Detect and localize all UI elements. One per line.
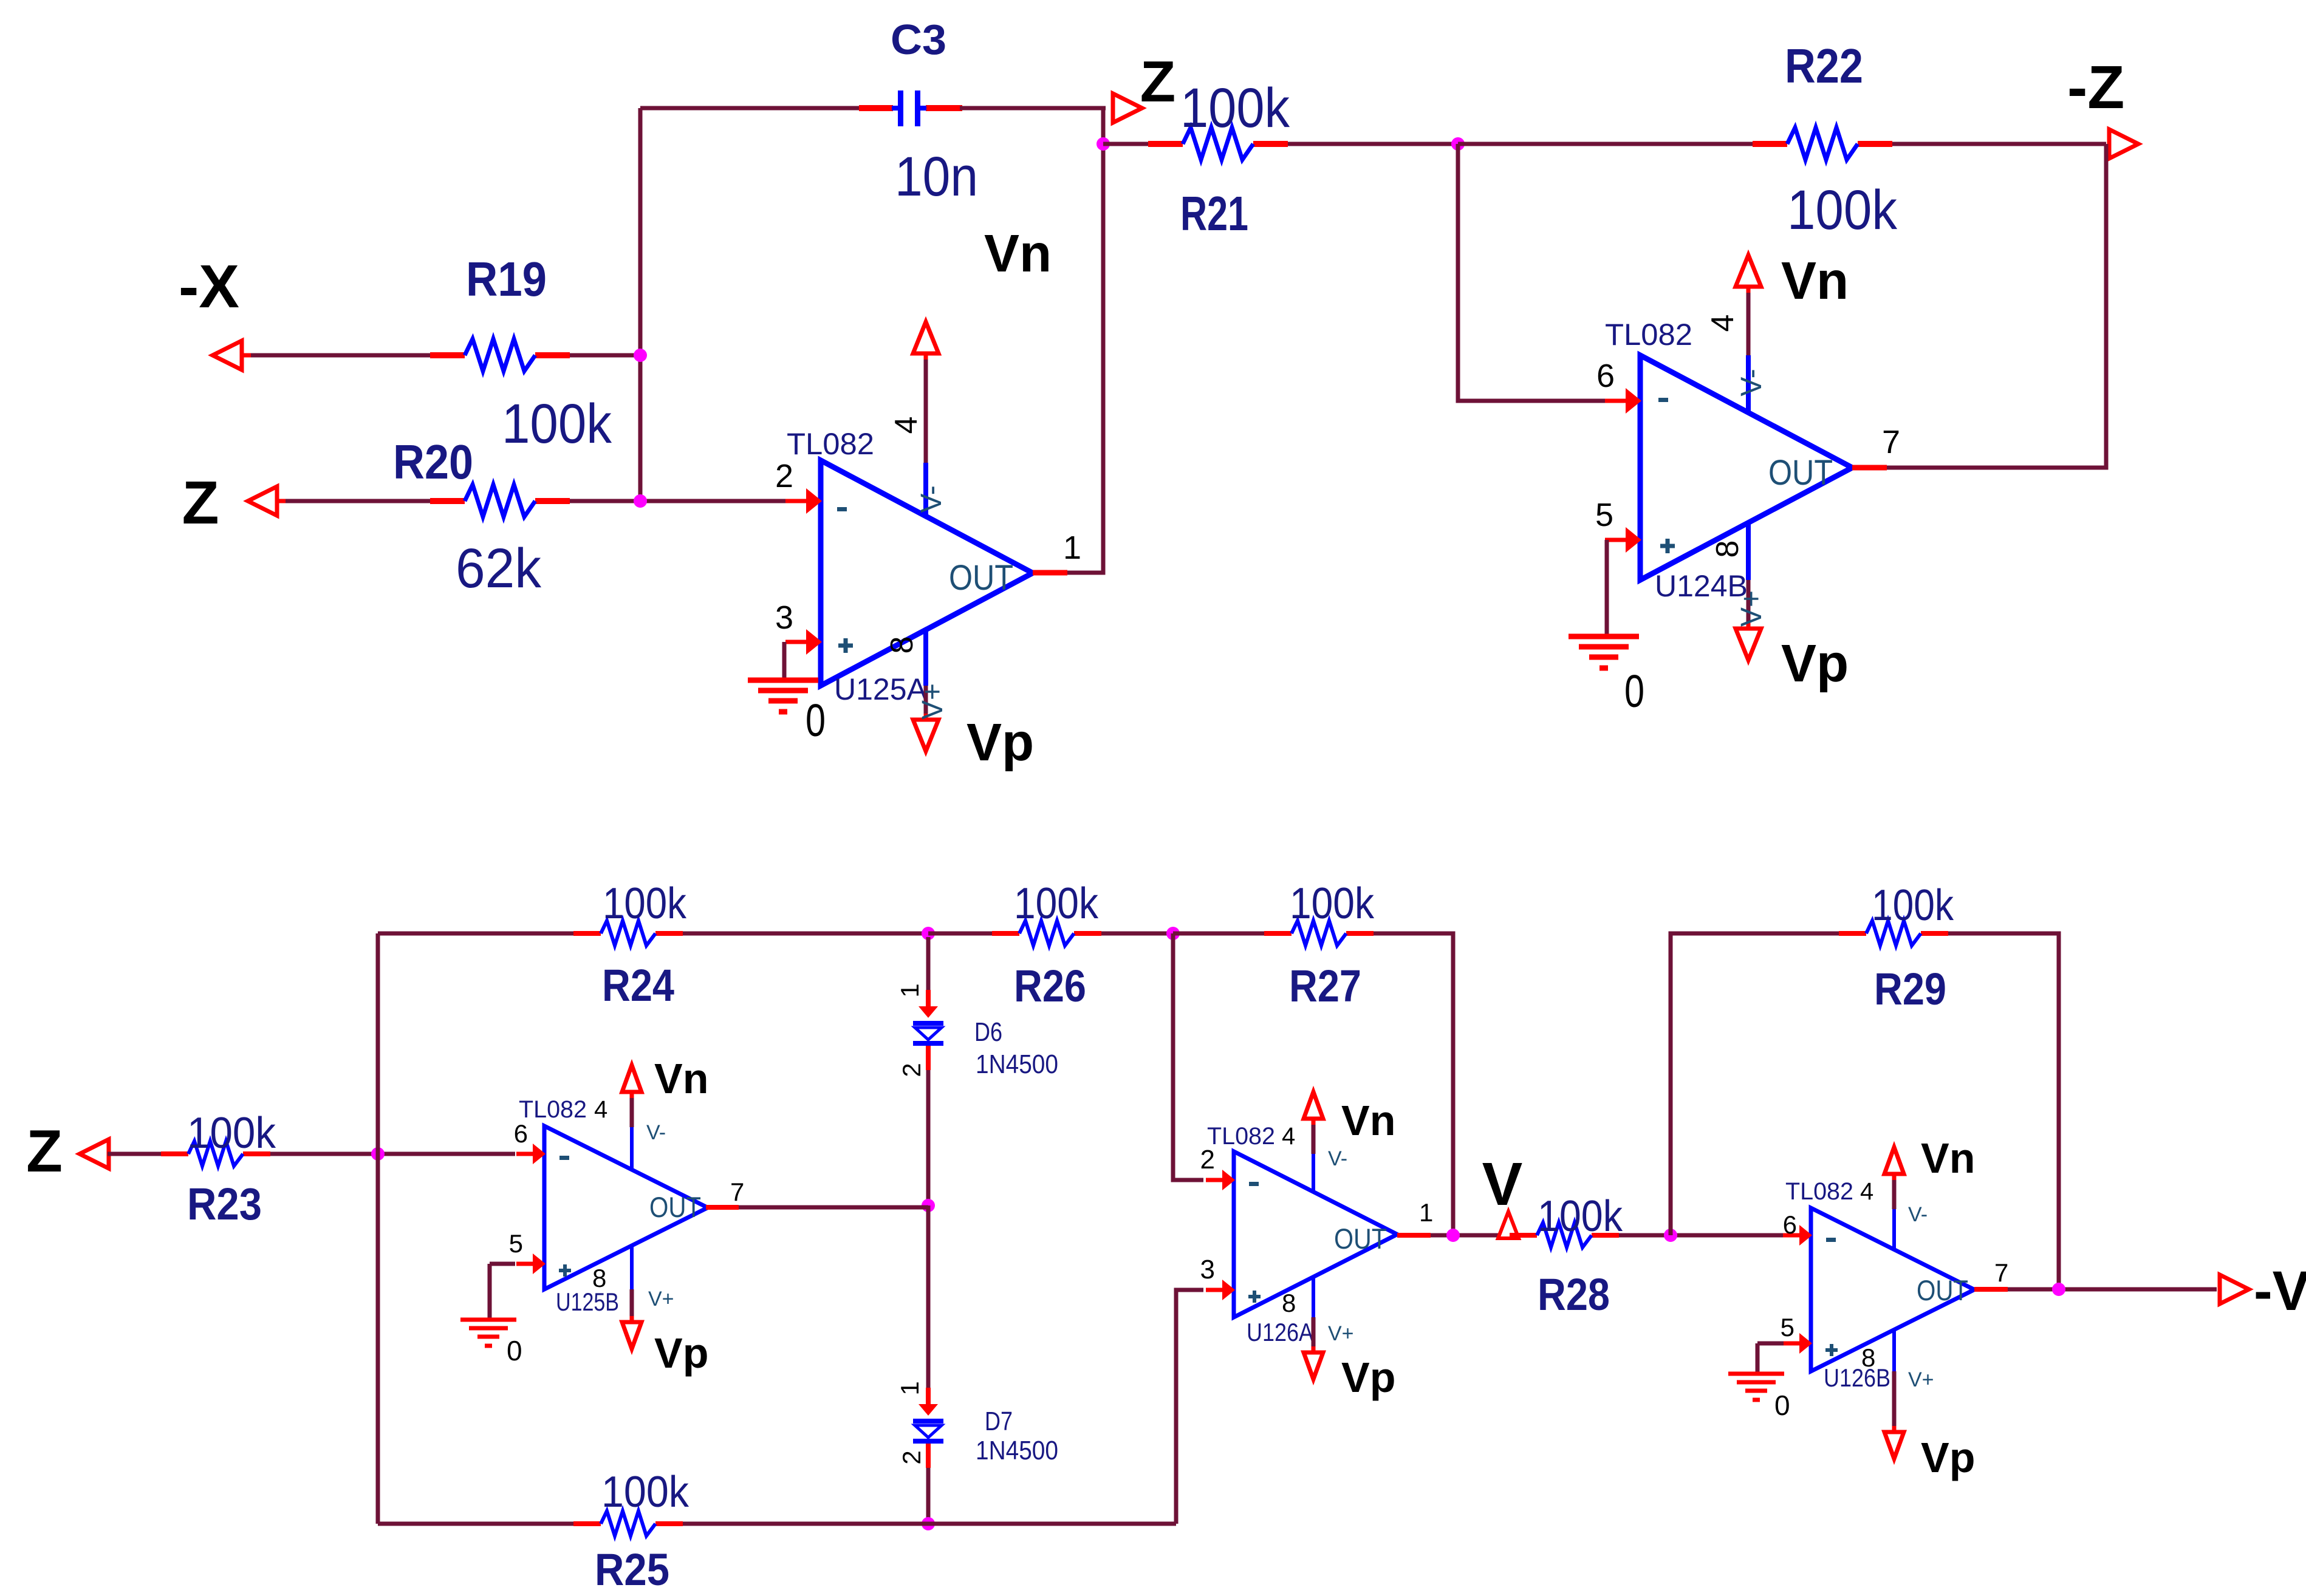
label R29 bbox=[1874, 964, 1946, 1014]
power arrow Vn (U124B) bbox=[1736, 255, 1761, 293]
pin OUT stub U125A bbox=[1033, 570, 1067, 576]
junction D7/R25 line bbox=[922, 1517, 935, 1530]
plus sign U125A bbox=[838, 638, 853, 653]
pin arrow 5 of U126B bbox=[1783, 1333, 1812, 1354]
label Vp (U125B) bbox=[654, 1329, 708, 1377]
power arrow Vn (U126B) bbox=[1884, 1147, 1904, 1180]
label R21 bbox=[1180, 186, 1248, 240]
svg-text:8: 8 bbox=[592, 1264, 606, 1292]
svg-text:D6: D6 bbox=[974, 1017, 1002, 1047]
svg-text:OUT: OUT bbox=[1334, 1223, 1387, 1255]
svg-text:V+: V+ bbox=[1736, 590, 1768, 627]
power arrow Vp (U124B) bbox=[1736, 622, 1761, 660]
op-amp U126B triangle bbox=[1811, 1208, 1974, 1371]
svg-text:2: 2 bbox=[897, 1450, 926, 1464]
pin 4 line V- of U125A bbox=[923, 353, 928, 517]
svg-text:Vn: Vn bbox=[1341, 1097, 1395, 1144]
label TL082 (U126B) bbox=[1785, 1178, 1853, 1205]
label U126A bbox=[1247, 1318, 1313, 1346]
svg-text:8: 8 bbox=[1710, 541, 1745, 558]
pin number 5 (U126B) bbox=[1781, 1313, 1795, 1342]
svg-text:OUT: OUT bbox=[1768, 453, 1833, 493]
wire pin5 to ground (U126B) bbox=[1757, 1343, 1784, 1374]
wire left vertical to R24 bbox=[378, 932, 573, 936]
svg-text:R28: R28 bbox=[1538, 1269, 1610, 1320]
pin arrow 5 of U125B bbox=[516, 1253, 546, 1274]
ground at U126B pin 5 bbox=[1728, 1374, 1784, 1400]
svg-text:Vn: Vn bbox=[1921, 1134, 1975, 1182]
wire U126A output to R28 bbox=[1431, 1233, 1511, 1238]
label R27 bbox=[1289, 961, 1361, 1011]
svg-text:100k: 100k bbox=[601, 1468, 689, 1516]
label Vn (U125A) bbox=[984, 224, 1052, 283]
resistor R27 bbox=[1264, 921, 1374, 946]
svg-text:1: 1 bbox=[1063, 530, 1081, 566]
wire R21 to U124B node bbox=[1288, 142, 1458, 146]
value 100k of R21 bbox=[1180, 77, 1290, 139]
svg-text:6: 6 bbox=[514, 1119, 528, 1148]
svg-text:Vp: Vp bbox=[1341, 1354, 1395, 1401]
svg-text:7: 7 bbox=[1882, 424, 1900, 460]
pin number 5 (U125B) bbox=[509, 1229, 523, 1258]
value 100k of R19 bbox=[502, 393, 612, 455]
svg-text:4: 4 bbox=[889, 417, 924, 434]
pin 8 line V+ of U126A bbox=[1312, 1277, 1315, 1350]
pin number 8 (U126B) bbox=[1861, 1343, 1875, 1372]
value 100k of R23 bbox=[187, 1109, 276, 1158]
pin 4 line V- of U126B bbox=[1892, 1176, 1896, 1249]
pin number 4 (U126B) bbox=[1860, 1178, 1873, 1205]
pin number 2 rotated (D7) bbox=[897, 1450, 926, 1464]
svg-text:U126A: U126A bbox=[1247, 1318, 1313, 1346]
label Vp (U125A) bbox=[967, 713, 1034, 772]
label V+ rotated (U124B) bbox=[1736, 590, 1768, 627]
label D6 bbox=[974, 1017, 1002, 1047]
label R25 bbox=[595, 1544, 669, 1595]
label OUT (U125A) bbox=[949, 558, 1013, 598]
pin OUT stub U126B bbox=[1974, 1287, 2008, 1292]
svg-text:TL082: TL082 bbox=[1785, 1178, 1853, 1205]
svg-text:C3: C3 bbox=[891, 16, 946, 63]
label -Z bbox=[2067, 53, 2124, 121]
wire U125A output up to node Z bbox=[1067, 108, 1103, 573]
svg-text:0: 0 bbox=[507, 1335, 522, 1366]
svg-text:OUT: OUT bbox=[649, 1191, 701, 1223]
svg-text:100k: 100k bbox=[603, 879, 687, 928]
value 100k of R26 bbox=[1014, 879, 1099, 928]
minus sign U125B bbox=[559, 1156, 569, 1160]
power arrow Vn (U125A) bbox=[913, 322, 939, 360]
power arrow Vn (U125B) bbox=[622, 1065, 642, 1098]
label R23 bbox=[187, 1179, 262, 1229]
ground at U125A pin 3 bbox=[748, 680, 818, 712]
wire left vertical to R25 bbox=[378, 1522, 573, 1526]
label Vp (U126A) bbox=[1341, 1354, 1395, 1401]
junction R20/vertical bbox=[634, 494, 647, 508]
pin OUT stub U124B bbox=[1852, 465, 1887, 471]
svg-text:4: 4 bbox=[594, 1096, 607, 1123]
power arrow Vp (U125A) bbox=[913, 714, 939, 751]
value 62k of R20 bbox=[456, 537, 542, 599]
wire Z to R23 bbox=[108, 1152, 161, 1156]
wire R28 to U126B pin 6 bbox=[1619, 1233, 1783, 1238]
minus sign U126A bbox=[1249, 1182, 1259, 1186]
svg-text:100k: 100k bbox=[1872, 881, 1954, 930]
label Vp (U126B) bbox=[1921, 1434, 1975, 1481]
value 100k of R25 bbox=[601, 1468, 689, 1516]
svg-text:100k: 100k bbox=[1787, 179, 1898, 241]
junction Z node / R21 bbox=[1097, 137, 1110, 151]
svg-text:R20: R20 bbox=[393, 435, 473, 489]
junction R28/R29 bbox=[1664, 1229, 1677, 1242]
svg-text:5: 5 bbox=[1595, 497, 1613, 533]
value 10n of C3 bbox=[895, 146, 978, 208]
svg-text:V+: V+ bbox=[1328, 1322, 1354, 1345]
minus sign U124B bbox=[1658, 398, 1668, 402]
resistor R19 bbox=[430, 339, 570, 371]
svg-text:2: 2 bbox=[1200, 1145, 1215, 1175]
svg-text:TL082: TL082 bbox=[1605, 318, 1692, 352]
svg-text:5: 5 bbox=[509, 1229, 523, 1258]
svg-text:V+: V+ bbox=[1908, 1368, 1934, 1391]
svg-text:62k: 62k bbox=[456, 537, 542, 599]
svg-text:R29: R29 bbox=[1874, 964, 1946, 1014]
junction U126B output/R29 bbox=[2052, 1283, 2065, 1296]
svg-text:U125A: U125A bbox=[834, 672, 928, 706]
pin 4 line V- of U126A bbox=[1312, 1121, 1315, 1192]
wire vertical R24/R25 left bbox=[376, 933, 380, 1524]
label U125B bbox=[556, 1287, 619, 1316]
ground at U124B pin 5 bbox=[1569, 636, 1639, 668]
svg-text:R26: R26 bbox=[1014, 961, 1086, 1011]
pin number 8 rotated (U125A) bbox=[884, 636, 920, 654]
resistor R20 bbox=[430, 485, 570, 517]
svg-text:0: 0 bbox=[1624, 666, 1644, 717]
svg-text:0: 0 bbox=[1774, 1390, 1790, 1421]
label V- (U126A) bbox=[1328, 1147, 1347, 1170]
label R19 bbox=[466, 252, 547, 306]
pin arrow 2 of U126A bbox=[1206, 1170, 1235, 1190]
minus sign U126B bbox=[1826, 1238, 1836, 1242]
pin arrow 3 of U125A bbox=[785, 629, 822, 655]
value 100k of R22 bbox=[1787, 179, 1898, 241]
pin number 1 (U125A) bbox=[1063, 530, 1081, 566]
svg-text:100k: 100k bbox=[187, 1109, 276, 1158]
plus sign U124B bbox=[1660, 539, 1675, 553]
svg-text:V-: V- bbox=[915, 485, 948, 513]
svg-text:Vp: Vp bbox=[1921, 1434, 1975, 1481]
label C3 bbox=[891, 16, 946, 63]
wire node down to U124B pin 6 bbox=[1458, 144, 1605, 401]
label V- (U125B) bbox=[646, 1121, 666, 1144]
svg-text:1N4500: 1N4500 bbox=[976, 1049, 1058, 1079]
svg-text:V-: V- bbox=[1736, 369, 1768, 396]
svg-text:8: 8 bbox=[1861, 1343, 1875, 1372]
value 100k of R27 bbox=[1290, 879, 1375, 928]
minus sign U125A bbox=[837, 507, 847, 511]
capacitor C3 bbox=[859, 90, 962, 126]
pin number 1 rotated (D6) bbox=[895, 983, 924, 997]
wire U126B output to -V port bbox=[2008, 1287, 2217, 1292]
value 100k of R24 bbox=[603, 879, 687, 928]
label U124B bbox=[1655, 569, 1748, 603]
port arrow input -X bbox=[213, 341, 254, 370]
junction R21/R22/pin6 bbox=[1451, 137, 1465, 151]
svg-text:U126B: U126B bbox=[1824, 1363, 1890, 1392]
label Vn (U125B) bbox=[654, 1055, 708, 1102]
svg-text:8: 8 bbox=[1282, 1289, 1296, 1317]
label OUT (U125B) bbox=[649, 1191, 701, 1223]
pin 8 line V+ of U124B bbox=[1746, 522, 1751, 629]
resistor R24 bbox=[573, 921, 683, 946]
wire U125B output to diode node bbox=[739, 1206, 928, 1210]
pin number 5 (U124B) bbox=[1595, 497, 1613, 533]
svg-text:Vn: Vn bbox=[984, 224, 1052, 283]
pin 4 line V- of U125B bbox=[630, 1094, 634, 1170]
label D7 bbox=[985, 1407, 1013, 1436]
port arrow output -Z bbox=[2109, 129, 2138, 159]
wire U125B output node to D7 bbox=[926, 1206, 931, 1388]
pin number 6 (U124B) bbox=[1596, 358, 1615, 394]
wire R22 to -Z port bbox=[1892, 142, 2106, 146]
pin arrow 6 of U126B bbox=[1783, 1225, 1812, 1246]
label R26 bbox=[1014, 961, 1086, 1011]
diode D6 bbox=[913, 990, 943, 1070]
junction R26/R27/U126A pin2 bbox=[1166, 927, 1180, 940]
svg-text:R24: R24 bbox=[602, 960, 674, 1011]
svg-text:U124B: U124B bbox=[1655, 569, 1748, 603]
label Vp (U124B) bbox=[1781, 634, 1849, 693]
wire R28 node up and to R29 bbox=[1671, 933, 1839, 1235]
pin 8 line V+ of U126B bbox=[1892, 1330, 1896, 1430]
wire D7 to R25 line bbox=[926, 1468, 931, 1524]
pin number 1 (U126A) bbox=[1419, 1198, 1433, 1227]
svg-text:100k: 100k bbox=[1538, 1192, 1623, 1241]
svg-text:1: 1 bbox=[1419, 1198, 1433, 1227]
junction R24/D6 bbox=[922, 927, 935, 940]
svg-text:Vp: Vp bbox=[1781, 634, 1849, 693]
svg-text:7: 7 bbox=[1994, 1258, 2008, 1287]
wire R29 down to U126B output bbox=[1948, 933, 2059, 1289]
label Z (left input) bbox=[182, 469, 219, 537]
svg-text:4: 4 bbox=[1860, 1178, 1873, 1205]
power arrow Vp (U126A) bbox=[1304, 1346, 1323, 1379]
wire R19 to node bbox=[570, 353, 640, 358]
svg-text:-X: -X bbox=[179, 253, 239, 321]
value 1N4500 of D6 bbox=[976, 1049, 1058, 1079]
net arrow V bbox=[1498, 1212, 1519, 1238]
pin number 6 (U126B) bbox=[1783, 1210, 1797, 1239]
pin number 3 (U125A) bbox=[775, 599, 793, 636]
pin 4 line V- of U124B bbox=[1746, 287, 1751, 414]
svg-text:OUT: OUT bbox=[1917, 1274, 1968, 1306]
svg-text:100k: 100k bbox=[1014, 879, 1099, 928]
wire R24 node to D6 bbox=[926, 937, 931, 990]
svg-text:2: 2 bbox=[775, 458, 793, 494]
svg-text:Z: Z bbox=[182, 469, 219, 537]
svg-text:V-: V- bbox=[1908, 1203, 1928, 1226]
pin number 7 (U125B) bbox=[730, 1178, 744, 1206]
label V+ rotated (U125A) bbox=[917, 683, 949, 720]
pin OUT stub U125B bbox=[706, 1205, 739, 1210]
pin number 3 (U126A) bbox=[1200, 1255, 1215, 1284]
svg-text:V+: V+ bbox=[648, 1287, 674, 1311]
svg-text:-Z: -Z bbox=[2067, 53, 2124, 121]
label TL082 (U126A) bbox=[1207, 1123, 1275, 1150]
wire R23 to U125B pin 6 bbox=[270, 1152, 515, 1156]
wire diode node to R26 bbox=[928, 932, 992, 936]
svg-text:7: 7 bbox=[730, 1178, 744, 1206]
svg-text:V+: V+ bbox=[917, 683, 949, 720]
label U125A bbox=[834, 672, 928, 706]
plus sign U125B bbox=[559, 1264, 571, 1277]
op-amp U124B triangle bbox=[1640, 355, 1852, 580]
svg-text:U125B: U125B bbox=[556, 1287, 619, 1316]
wire node to R22 bbox=[1458, 142, 1753, 146]
ground at U125B pin 5 bbox=[460, 1320, 516, 1346]
resistor R25 bbox=[573, 1511, 683, 1536]
pin number 7 (U126B) bbox=[1994, 1258, 2008, 1287]
label OUT (U126A) bbox=[1334, 1223, 1387, 1255]
wire R26 to R27 node bbox=[1101, 932, 1173, 936]
wire pin5 to ground (U125B) bbox=[490, 1264, 515, 1320]
label -X bbox=[179, 253, 239, 321]
label Vn (U126A) bbox=[1341, 1097, 1395, 1144]
svg-text:-V: -V bbox=[2254, 1260, 2306, 1322]
svg-text:1: 1 bbox=[895, 1381, 924, 1395]
wire Z node to R21 bbox=[1103, 142, 1148, 146]
pin OUT stub U126A bbox=[1397, 1233, 1431, 1238]
wire vertical C3/R19/R20 node bbox=[638, 108, 643, 501]
pin 8 line V+ of U125A bbox=[923, 629, 928, 720]
svg-text:Vn: Vn bbox=[654, 1055, 708, 1102]
port arrow node Z (top output) bbox=[1113, 94, 1142, 123]
value 1N4500 of D7 bbox=[976, 1436, 1058, 1465]
plus sign U126B bbox=[1825, 1344, 1838, 1356]
svg-text:1N4500: 1N4500 bbox=[976, 1436, 1058, 1465]
resistor R22 bbox=[1753, 128, 1892, 160]
svg-text:R22: R22 bbox=[1785, 39, 1863, 93]
pin arrow 3 of U126A bbox=[1206, 1280, 1235, 1300]
label V+ (U126A) bbox=[1328, 1322, 1354, 1345]
pin number 8 (U125B) bbox=[592, 1264, 606, 1292]
resistor R26 bbox=[992, 921, 1101, 946]
svg-text:100k: 100k bbox=[1290, 879, 1375, 928]
wire R24 to diode node bbox=[683, 932, 928, 936]
label TL082 (U125B) bbox=[519, 1096, 587, 1123]
svg-text:4: 4 bbox=[1282, 1123, 1295, 1150]
label TL082 (U125A) bbox=[787, 427, 874, 461]
resistor R21 bbox=[1148, 128, 1288, 160]
pin number 2 rotated (D6) bbox=[897, 1063, 926, 1077]
value 100k of R29 bbox=[1872, 881, 1954, 930]
svg-text:V: V bbox=[1482, 1150, 1523, 1218]
svg-text:3: 3 bbox=[1200, 1255, 1215, 1284]
op-amp U125B triangle bbox=[544, 1126, 708, 1289]
svg-text:R19: R19 bbox=[466, 252, 547, 306]
power arrow Vp (U125B) bbox=[622, 1316, 642, 1349]
label Z (bottom input) bbox=[26, 1117, 63, 1184]
svg-text:2: 2 bbox=[897, 1063, 926, 1077]
wire R26/R27 node down to U126A pin 2 bbox=[1173, 933, 1203, 1180]
svg-text:5: 5 bbox=[1781, 1313, 1795, 1342]
pin number 2 (U126A) bbox=[1200, 1145, 1215, 1175]
svg-text:Z: Z bbox=[1140, 49, 1176, 114]
label R28 bbox=[1538, 1269, 1610, 1320]
pin 8 line V+ of U125B bbox=[630, 1245, 634, 1320]
svg-text:R25: R25 bbox=[595, 1544, 669, 1595]
wire C3 top feedback from node to capacitor bbox=[640, 106, 860, 111]
svg-text:10n: 10n bbox=[895, 146, 978, 208]
pin number 8 rotated (U124B) bbox=[1710, 541, 1745, 558]
label 0 (U126B ground) bbox=[1774, 1390, 1790, 1421]
svg-text:6: 6 bbox=[1596, 358, 1615, 394]
wire R20 to U125A pin 2 bbox=[570, 499, 785, 503]
pin number 7 (U124B) bbox=[1882, 424, 1900, 460]
pin number 6 (U125B) bbox=[514, 1119, 528, 1148]
wire U124B output to -Z node bbox=[1887, 144, 2106, 468]
svg-text:R21: R21 bbox=[1180, 186, 1248, 240]
wire pin3 to ground (U125A) bbox=[782, 642, 787, 680]
junction U126A output/R27 bbox=[1446, 1229, 1460, 1242]
wire R25 to U126A pin3 corner bbox=[683, 1522, 1176, 1526]
svg-text:R23: R23 bbox=[187, 1179, 262, 1229]
pin number 4 rotated (U124B) bbox=[1705, 315, 1740, 332]
svg-text:1: 1 bbox=[895, 983, 924, 997]
label V+ (U125B) bbox=[648, 1287, 674, 1311]
port arrow input Z (left) bbox=[248, 486, 289, 516]
label 0 (U124B ground) bbox=[1624, 666, 1644, 717]
label R24 bbox=[602, 960, 674, 1011]
pin arrow 6 of U125B bbox=[516, 1144, 546, 1164]
label 0 (U125B ground) bbox=[507, 1335, 522, 1366]
resistor R29 bbox=[1839, 921, 1948, 946]
svg-text:100k: 100k bbox=[1180, 77, 1290, 139]
svg-text:6: 6 bbox=[1783, 1210, 1797, 1239]
junction R19/vertical bbox=[634, 349, 647, 362]
wire D6 to U125B output node bbox=[926, 1070, 931, 1206]
pin number 2 (U125A) bbox=[775, 458, 793, 494]
svg-text:D7: D7 bbox=[985, 1407, 1013, 1436]
resistor R28 bbox=[1510, 1223, 1619, 1247]
port arrow input Z (bottom) bbox=[80, 1139, 121, 1168]
label Vn (U126B) bbox=[1921, 1134, 1975, 1182]
svg-text:0: 0 bbox=[806, 695, 826, 746]
label V+ (U126B) bbox=[1908, 1368, 1934, 1391]
pin number 4 rotated (U125A) bbox=[889, 417, 924, 434]
svg-text:3: 3 bbox=[775, 599, 793, 636]
svg-text:TL082: TL082 bbox=[1207, 1123, 1275, 1150]
label V- rotated (U124B) bbox=[1736, 369, 1768, 396]
svg-text:8: 8 bbox=[884, 636, 920, 654]
wire pin5 to ground (U124B) bbox=[1605, 540, 1609, 636]
junction D6/U125B output bbox=[922, 1199, 935, 1212]
pin number 8 (U126A) bbox=[1282, 1289, 1296, 1317]
pin number 4 (U126A) bbox=[1282, 1123, 1295, 1150]
svg-text:OUT: OUT bbox=[949, 558, 1013, 598]
resistor R23 bbox=[161, 1141, 270, 1166]
power arrow Vp (U126B) bbox=[1884, 1426, 1904, 1459]
svg-text:V-: V- bbox=[646, 1121, 666, 1144]
label R20 bbox=[393, 435, 473, 489]
op-amp U125A triangle bbox=[821, 460, 1033, 686]
wire R25 line up to U126A pin 3 bbox=[1176, 1290, 1203, 1524]
svg-text:100k: 100k bbox=[502, 393, 612, 455]
svg-text:Vp: Vp bbox=[654, 1329, 708, 1377]
label V- rotated (U125A) bbox=[915, 485, 948, 513]
diode D7 bbox=[913, 1388, 943, 1468]
wire node to R27 bbox=[1173, 932, 1264, 936]
